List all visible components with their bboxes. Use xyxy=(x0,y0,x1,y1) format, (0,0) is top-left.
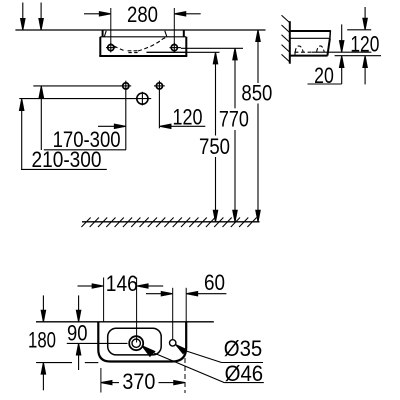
leader dia35 underline xyxy=(222,362,264,364)
dim 20 lower arrow (up) xyxy=(340,56,344,84)
dim 850 vertical xyxy=(256,30,260,222)
dim 120 lower arrow (up) xyxy=(363,56,367,85)
wall reference line xyxy=(36,321,214,323)
basin rim top (side) xyxy=(290,30,331,32)
basin outline (plan) xyxy=(98,322,186,362)
dim 146 extension left xyxy=(103,278,105,322)
dim 120 upper arrow (down) xyxy=(363,7,367,30)
dim 60 arrow right (pointing left) + tail xyxy=(187,292,227,296)
svg-text:120: 120 xyxy=(173,105,203,130)
svg-text:770: 770 xyxy=(219,106,249,131)
svg-text:370: 370 xyxy=(122,369,155,394)
svg-text:146: 146 xyxy=(106,271,138,296)
faucet hole outer circle xyxy=(129,336,143,350)
wall hatching xyxy=(282,15,290,62)
hidden trap baseline dashed xyxy=(294,51,312,53)
dim 370 extension right (dashed) xyxy=(184,358,186,393)
dim 180 lower arrow (up) xyxy=(41,363,45,391)
dim 750 vertical xyxy=(213,52,217,222)
fixing hole crosshair left (in body) xyxy=(108,45,114,51)
dim 210-300 leader line xyxy=(21,168,107,170)
dim 60 extension left xyxy=(172,288,174,340)
svg-text:20: 20 xyxy=(314,63,334,88)
dim 280 arrow left xyxy=(84,12,110,16)
hidden trap bump left xyxy=(295,46,303,52)
hidden trap vertical dashed xyxy=(294,52,296,55)
svg-text:750: 750 xyxy=(199,134,230,159)
basin rim right edge xyxy=(329,30,332,38)
dim 370 extension left xyxy=(100,368,102,393)
wire 750 reference line xyxy=(147,51,220,53)
overflow hole circle xyxy=(170,340,176,346)
dim 170-300 leader line xyxy=(44,149,126,151)
dim 20 upper arrow (down) xyxy=(340,24,344,52)
basin body front outline xyxy=(99,30,187,56)
basin front edge (side) xyxy=(327,38,330,55)
rim tick right xyxy=(165,31,167,37)
hidden bowl edge dashed left xyxy=(114,46,126,52)
wire rim-top extension right xyxy=(347,29,371,31)
dim 120 arrow right + tail under text xyxy=(160,124,205,128)
wire inner-bottom reference extended xyxy=(312,51,371,53)
svg-text:90: 90 xyxy=(67,321,88,346)
basin bottom (side) xyxy=(290,55,328,57)
fixing hole crosshair lower-right xyxy=(156,83,162,89)
dim 180 upper arrow (down) xyxy=(41,295,45,321)
dim 146 arrow right xyxy=(137,284,163,288)
wire top rim line xyxy=(15,29,265,31)
dim 370 line + arrows xyxy=(101,381,185,385)
dim 280 extension line left xyxy=(110,8,112,44)
dim 280 arrow right xyxy=(175,12,201,16)
faucet hole circle (front view) xyxy=(137,93,148,104)
basin rim shoulder line xyxy=(100,36,186,38)
dim 170-300 lower arrow xyxy=(39,86,43,150)
dim 90 upper arrow (down) xyxy=(76,295,80,321)
faucet hole inner circle xyxy=(132,339,140,347)
inner bowl outline (plan) xyxy=(108,328,162,355)
dim 120 extension vertical xyxy=(158,91,160,128)
svg-text:280: 280 xyxy=(127,2,158,27)
floor line xyxy=(82,221,260,223)
dim 770 vertical xyxy=(233,48,237,222)
dim 90 lower arrow (up) xyxy=(76,343,80,370)
inner bottom line xyxy=(147,51,187,53)
svg-text:180: 180 xyxy=(28,327,56,352)
wire hole-row reference line xyxy=(33,85,122,87)
fixing hole crosshair right (in body) xyxy=(171,45,177,51)
dim 20 leader line xyxy=(308,83,342,85)
wire faucet-row reference line xyxy=(19,98,133,100)
leader dia35 arrow + line xyxy=(176,345,222,363)
wall-ref arrow left 2 xyxy=(39,3,43,31)
wire basin-bottom extension left xyxy=(36,362,72,364)
hidden bowl edge dashed right xyxy=(138,38,167,52)
fixing hole crosshair lower-left xyxy=(123,83,129,89)
hidden drain dashes xyxy=(128,50,132,52)
dim 210-300 lower arrow xyxy=(20,99,24,169)
dim 146 extension right (faucet centerline) xyxy=(136,278,138,343)
wire 770 reference line xyxy=(181,47,243,49)
dim 280 extension line right xyxy=(173,8,175,44)
wall-ref arrow left 1 xyxy=(21,3,25,31)
basin rim bottom (side) xyxy=(290,37,330,39)
floor hatching xyxy=(81,218,256,228)
leader dia46 arrow + line xyxy=(142,346,224,383)
svg-text:850: 850 xyxy=(241,81,272,106)
wire faucet center reference xyxy=(67,342,128,344)
hidden trap bump right xyxy=(317,46,325,52)
svg-text:120: 120 xyxy=(350,31,379,56)
wire bottom extension right xyxy=(335,55,381,57)
dim 170-300 extension vertical xyxy=(125,91,127,150)
rim tick left xyxy=(104,31,106,37)
svg-text:60: 60 xyxy=(204,270,225,295)
dim 60 extension right xyxy=(185,288,187,322)
svg-text:Ø35: Ø35 xyxy=(224,336,263,361)
wall line xyxy=(289,21,291,64)
dim 120 arrow left xyxy=(98,124,125,128)
svg-text:210-300: 210-300 xyxy=(32,147,102,172)
dim 60 arrow left (pointing right) xyxy=(146,292,172,296)
leader dia46 underline xyxy=(224,382,263,384)
svg-text:Ø46: Ø46 xyxy=(225,361,264,386)
dim 146 arrow left xyxy=(78,284,104,288)
